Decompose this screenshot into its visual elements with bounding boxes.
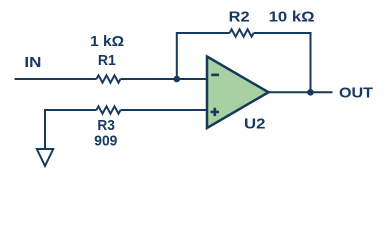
node junction output <box>307 89 314 96</box>
svg-text:1 kΩ: 1 kΩ <box>90 33 124 50</box>
svg-text:OUT: OUT <box>339 85 373 102</box>
wire feedback riser <box>177 33 230 79</box>
resistor R1 <box>97 75 121 82</box>
svg-text:R2: R2 <box>229 8 250 25</box>
pin minus <box>211 74 219 77</box>
pin plus <box>211 108 219 116</box>
svg-text:U2: U2 <box>244 116 266 133</box>
ground <box>37 149 53 166</box>
wire IN lead to R1 <box>15 78 97 80</box>
wire ground corner to R3 <box>45 110 97 149</box>
node junction inverting input <box>174 76 181 83</box>
op-amp U2 <box>207 57 269 129</box>
wire output <box>269 91 333 93</box>
wire R3 to non-inverting input <box>121 109 208 111</box>
wire R2 to output node <box>254 33 311 92</box>
resistor R3 <box>97 106 121 113</box>
wire R1 to inverting input <box>121 78 208 80</box>
svg-text:R1: R1 <box>98 52 116 69</box>
svg-text:IN: IN <box>24 54 41 71</box>
svg-text:10 kΩ: 10 kΩ <box>269 9 315 26</box>
svg-text:909: 909 <box>94 132 117 149</box>
resistor R2 <box>230 29 254 36</box>
